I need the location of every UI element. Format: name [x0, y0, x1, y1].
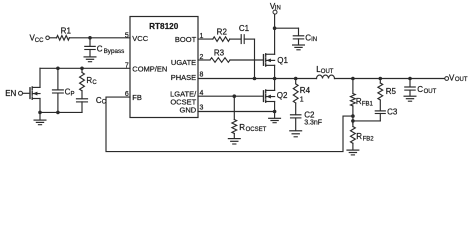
transistor Q1 high-side MOSFET — [263, 55, 265, 66]
node VOUT output terminal — [445, 77, 449, 81]
wire pin8 PHASE to inductor — [198, 78, 317, 80]
wire pin4 LGATE/OCSET to Q2 gate — [198, 95, 264, 97]
svg-text:EN: EN — [5, 89, 16, 98]
node junction RFB1/vout — [351, 77, 355, 81]
resistor R2 — [213, 37, 230, 42]
wire R3 to Q1 gate — [230, 59, 264, 61]
capacitor C2 — [295, 103, 297, 115]
svg-text:1: 1 — [300, 97, 304, 104]
svg-text:C: C — [97, 44, 103, 53]
wire Vcc terminal to R1 — [49, 37, 56, 39]
svg-text:R: R — [239, 123, 245, 132]
wire VIN junction to CIN — [275, 27, 299, 29]
svg-text:CC: CC — [35, 38, 44, 44]
node junction Q1-Q2 phase — [273, 77, 277, 81]
svg-text:C2: C2 — [304, 111, 315, 120]
wire Q2 source down — [274, 102, 276, 112]
transistor Q3 enable MOSFET — [29, 88, 31, 99]
svg-text:FB: FB — [132, 93, 142, 102]
ground for power stage — [274, 112, 276, 118]
wire EN to Q3 gate — [23, 92, 31, 94]
node junction Cp — [56, 67, 60, 71]
capacitor C1 — [240, 35, 242, 44]
resistor RC — [81, 68, 83, 72]
wire R2 to C1 — [230, 38, 241, 40]
resistor ROCSET — [233, 96, 235, 119]
wire Q1 source to phase node — [274, 65, 276, 78]
resistor R3 — [210, 58, 230, 63]
resistor R4 — [295, 79, 297, 84]
resistor R5 — [379, 79, 381, 84]
wire C3 to FB node — [353, 120, 380, 122]
svg-text:R1: R1 — [61, 26, 72, 35]
capacitor C_Bypass — [89, 38, 91, 46]
svg-text:C: C — [92, 80, 97, 86]
wire Q3 drain to COMP/EN rail — [39, 68, 41, 87]
wire FB pin to feedback divider — [106, 97, 353, 152]
node junction Rc — [80, 67, 84, 71]
node junction VIN/CIN — [273, 26, 277, 30]
resistor RFB1 — [352, 79, 354, 94]
svg-text:C3: C3 — [387, 108, 398, 117]
wire R1 to VCC pin — [69, 37, 130, 39]
wire COMP/EN rail to pin 7 — [40, 67, 130, 69]
svg-text:GND: GND — [180, 106, 197, 115]
svg-text:OUT: OUT — [424, 89, 437, 95]
ground for CIN — [293, 44, 305, 46]
wire pin2 UGATE to R3 — [198, 59, 210, 61]
wire inductor to VOUT terminal — [335, 78, 445, 80]
svg-text:OUT: OUT — [321, 69, 334, 75]
capacitor COUT — [409, 79, 411, 87]
svg-text:C: C — [417, 85, 423, 94]
svg-text:FB2: FB2 — [363, 136, 375, 142]
node junction Vcc/Cbypass — [88, 36, 92, 40]
capacitor CIN — [298, 28, 300, 35]
svg-text:UGATE: UGATE — [171, 58, 196, 67]
svg-text:R5: R5 — [386, 87, 397, 96]
node junction FB/C3 — [351, 119, 355, 123]
capacitor C3 — [379, 100, 381, 111]
svg-text:R: R — [356, 132, 362, 141]
svg-text:Bypass: Bypass — [104, 48, 125, 55]
svg-text:OCSET: OCSET — [246, 127, 267, 133]
wire pin3 GND to Q2 source — [198, 111, 275, 113]
svg-text:3: 3 — [200, 104, 204, 111]
node junction R5/vout — [379, 77, 383, 81]
node junction ROCSET — [233, 94, 237, 98]
resistor RFB2 — [352, 121, 354, 127]
svg-text:R3: R3 — [214, 49, 225, 58]
capacitor CC — [81, 91, 83, 99]
ground for C_Bypass — [84, 56, 96, 58]
wire C1 to phase node — [244, 38, 254, 40]
svg-text:8: 8 — [200, 72, 204, 79]
node junction C1/phase — [253, 77, 257, 81]
node junction R4/phase — [294, 77, 298, 81]
ground for COUT — [404, 95, 416, 97]
svg-text:3.3nF: 3.3nF — [304, 120, 322, 127]
svg-text:R2: R2 — [217, 28, 228, 37]
svg-text:COMP/EN: COMP/EN — [132, 65, 167, 74]
inductor LOUT — [317, 75, 335, 78]
wire comp network bottom rail — [39, 99, 41, 113]
op-amp U1 RT8120 controller IC body — [130, 17, 198, 118]
node junction Cout/vout — [408, 77, 412, 81]
wire VIN down to Q1 drain — [274, 14, 276, 54]
svg-text:OUT: OUT — [455, 77, 468, 83]
resistor R1 — [57, 36, 70, 41]
svg-text:IN: IN — [311, 37, 317, 43]
ground for RFB2 — [347, 149, 359, 151]
ground for EN/comp network — [39, 112, 41, 119]
svg-text:FB1: FB1 — [362, 102, 374, 108]
svg-text:PHASE: PHASE — [171, 73, 196, 82]
ground for C2 — [290, 130, 302, 132]
svg-text:VCC: VCC — [132, 34, 148, 43]
svg-text:C1: C1 — [239, 24, 250, 33]
svg-text:BOOT: BOOT — [175, 35, 197, 44]
ground for ROCSET — [228, 138, 240, 140]
svg-text:P: P — [71, 91, 75, 97]
svg-text:R4: R4 — [300, 86, 311, 95]
node junction bottom left — [38, 111, 42, 115]
svg-text:Q1: Q1 — [277, 56, 288, 65]
wire pin1 BOOT to R2 — [198, 38, 213, 40]
svg-text:Q2: Q2 — [277, 91, 288, 100]
svg-text:RT8120: RT8120 — [149, 22, 179, 31]
capacitor CP — [57, 68, 59, 89]
transistor Q2 low-side MOSFET — [263, 91, 265, 102]
wire Q2 drain to phase node — [274, 79, 276, 91]
node junction Q2 source/gnd — [273, 110, 277, 114]
node junction FB — [351, 114, 355, 118]
svg-text:5: 5 — [125, 33, 129, 40]
